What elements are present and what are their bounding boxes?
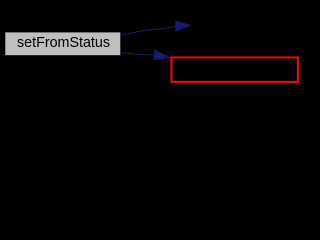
svg-text:setFromStatus: setFromStatus xyxy=(17,35,110,51)
arrowhead of top edge xyxy=(176,21,191,31)
node setFromStatus (gray box) xyxy=(5,32,120,55)
edge to top node (wire) xyxy=(122,26,176,35)
arrowhead of bottom edge xyxy=(154,50,169,59)
truncated node (red box) xyxy=(171,57,298,82)
edge to red node (wire) xyxy=(122,53,155,55)
